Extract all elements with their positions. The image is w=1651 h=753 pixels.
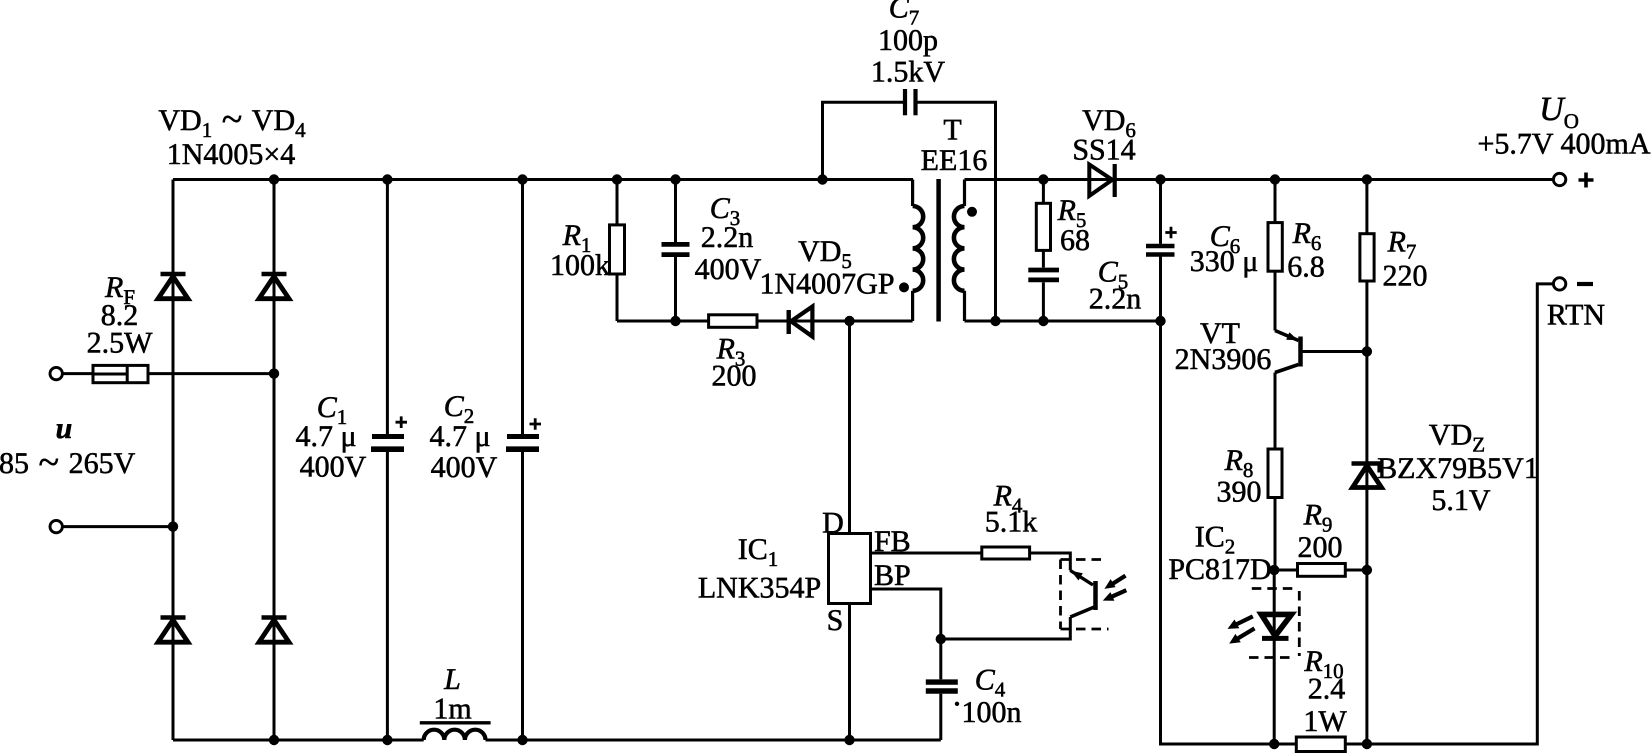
wire bottom rail LED node to R10 [1274, 743, 1296, 746]
node top rail / right bridge column [269, 174, 279, 184]
transformer T primary winding [913, 180, 924, 322]
optocoupler incoming light arrow 2 [1103, 590, 1127, 601]
svg-text:200: 200 [712, 360, 757, 393]
wire VT base lead [1303, 350, 1367, 353]
diode VD5 [789, 307, 813, 337]
transformer T core [936, 179, 941, 322]
wire R5 to C5 [1042, 250, 1045, 267]
fusible resistor RF [93, 365, 148, 382]
node top rail / C2 [517, 174, 527, 184]
output plus sign [1579, 173, 1594, 188]
svg-text:FB: FB [874, 525, 911, 558]
node bottom rail / right bridge column [269, 735, 279, 745]
capacitor C1 (electrolytic) [371, 416, 407, 449]
node output rail / R7 [1362, 174, 1372, 184]
svg-text:400V: 400V [695, 253, 762, 286]
optocoupler phototransistor dashed outline [1061, 560, 1109, 630]
wire R4 to opto collector corner [1030, 553, 1071, 571]
svg-text:VD1 ~ VD4: VD1 ~ VD4 [158, 99, 306, 143]
node BP / C4 / opto emitter [936, 634, 946, 644]
svg-text:400V: 400V [431, 451, 498, 484]
optocoupler phototransistor (IC2 right half) [1070, 571, 1095, 618]
optocoupler incoming light arrow 1 [1104, 576, 1125, 589]
wire IC1 BP pin down to node [871, 589, 941, 639]
wire C2 column upper [521, 180, 524, 435]
svg-text:L: L [443, 663, 461, 696]
wire AC live input to fuse [62, 372, 93, 375]
resistor R7 [1360, 234, 1374, 281]
wire bottom DC- rail right of inductor [486, 739, 941, 742]
wire R1 top lead [616, 180, 619, 225]
capacitor C5 [1028, 270, 1059, 280]
svg-text:2.2n: 2.2n [1089, 283, 1142, 316]
node bottom rail / LED cathode [1269, 739, 1279, 749]
IC1 LNK354P box [829, 534, 871, 604]
node bottom rail / C1 bottom [382, 735, 392, 745]
capacitor C3 [662, 244, 690, 254]
wire AC neutral input [62, 525, 173, 528]
svg-text:PC817D: PC817D [1168, 553, 1271, 586]
wire C1 column upper [386, 180, 389, 435]
svg-text:EE16: EE16 [921, 144, 988, 177]
wire right bridge column [273, 180, 276, 741]
transformer secondary phase dot [967, 207, 977, 217]
svg-text:68: 68 [1060, 224, 1090, 257]
resistor R8 [1268, 449, 1282, 498]
terminal AC live [50, 367, 62, 379]
resistor R1 [610, 225, 625, 274]
node clamp / C3 bottom [670, 316, 680, 326]
svg-text:200: 200 [1298, 531, 1343, 564]
capacitor C6 (electrolytic) [1146, 227, 1177, 255]
svg-text:2.4: 2.4 [1308, 673, 1346, 706]
resistor R10 [1296, 737, 1345, 752]
capacitor C2 (electrolytic) [506, 418, 541, 449]
node VT base / R7 [1362, 346, 1372, 356]
node output rail / R6 [1270, 174, 1280, 184]
wire R7 top lead [1365, 180, 1368, 234]
diode VD6 SS14 [1089, 164, 1114, 197]
wire C7 left vertical [823, 102, 904, 179]
wire R7 through base node and zener to bottom [1365, 281, 1368, 744]
wire BP node through C4 top [939, 639, 942, 679]
svg-text:2N3906: 2N3906 [1175, 343, 1272, 376]
node drain / VD5 / D pin [844, 316, 854, 326]
wire opto emitter to BP node [941, 617, 1071, 639]
svg-text:100k: 100k [550, 249, 610, 282]
wire transformer secondary bottom to return rail [965, 320, 1161, 323]
node AC neutral / bridge [168, 521, 178, 531]
resistor R5 [1036, 203, 1050, 250]
wire LED column through diode [1273, 570, 1276, 744]
svg-text:BZX79B5V1: BZX79B5V1 [1377, 452, 1539, 485]
diode VD4 (bridge bottom-right) [259, 618, 289, 643]
svg-text:2.2n: 2.2n [701, 221, 754, 254]
svg-text:6.8: 6.8 [1287, 250, 1325, 283]
svg-text:4.7 μ: 4.7 μ [295, 420, 356, 453]
transformer T secondary winding [954, 180, 965, 322]
wire R8 to feedback node [1274, 498, 1277, 571]
svg-text:D: D [822, 507, 844, 540]
node secondary return / C5 [1038, 316, 1048, 326]
wire secondary return down [1161, 321, 1275, 744]
wire top DC+ rail (primary side) [173, 178, 913, 181]
wire C4 bottom to rail corner [939, 694, 942, 740]
transistor VT 2N3906 [1275, 331, 1301, 373]
svg-text:T: T [943, 114, 961, 147]
wire clamp node to R3 [617, 320, 709, 323]
svg-text:2.5W: 2.5W [87, 327, 154, 360]
wire C5 bottom lead [1042, 282, 1045, 321]
node R9 / zener column [1362, 565, 1372, 575]
svg-text:SS14: SS14 [1072, 134, 1135, 167]
stray printing dot near C4 value [955, 702, 959, 706]
IC2 LED emitted light arrow 1 [1228, 616, 1253, 629]
wire bottom DC- rail left of inductor [173, 739, 424, 742]
svg-text:330 μ: 330 μ [1190, 245, 1259, 278]
wire C6 bottom lead [1159, 257, 1162, 322]
terminal RTN minus [1553, 278, 1565, 290]
wire R1 bottom lead [616, 274, 619, 321]
svg-text:LNK354P: LNK354P [698, 572, 821, 605]
wire R6 top lead [1274, 180, 1277, 223]
wire C3 bottom lead [674, 257, 677, 321]
diode VD2 (bridge top-right) [259, 274, 289, 299]
node secondary return / C7 [990, 316, 1000, 326]
wire left bridge column [172, 180, 175, 741]
wire drain node to IC1 D pin [848, 321, 851, 534]
resistor R9 [1298, 564, 1346, 577]
svg-text:400V: 400V [300, 451, 367, 484]
svg-text:u: u [56, 412, 73, 445]
wire C6 top lead [1159, 180, 1162, 244]
svg-text:1N4005×4: 1N4005×4 [167, 138, 296, 171]
svg-text:1.5kV: 1.5kV [871, 55, 946, 88]
node output rail / R5 [1038, 174, 1048, 184]
wire IC1 FB pin to R4 [871, 552, 982, 555]
wire C2 column lower [521, 452, 524, 740]
node top rail / C3 [670, 174, 680, 184]
svg-text:5.1V: 5.1V [1431, 484, 1491, 517]
svg-text:4.7 μ: 4.7 μ [429, 420, 490, 453]
svg-text:100p: 100p [878, 24, 938, 57]
wire fuse to bridge node [148, 372, 274, 375]
wire R6 to VT emitter [1274, 271, 1277, 330]
node top rail / C1 [382, 174, 392, 184]
wire IC1 S pin to bottom rail [848, 604, 851, 741]
resistor R4 [982, 547, 1030, 559]
svg-text:BP: BP [874, 559, 911, 592]
svg-text:5.1k: 5.1k [985, 506, 1038, 539]
wire R3 to VD5 anode through diode [757, 320, 913, 323]
node top rail / R1 [612, 174, 622, 184]
diode VD1 (bridge top-left) [158, 274, 188, 299]
wire VT collector to R8 [1274, 373, 1277, 450]
wire bottom rail to RTN riser [1367, 284, 1554, 744]
zener diode VDZ BZX79B5V1 [1352, 464, 1382, 488]
terminal AC neutral [50, 520, 62, 532]
IC2 LED (PC817 input side) [1261, 614, 1291, 638]
terminal output plus [1553, 173, 1565, 185]
node top rail / C7 [817, 174, 827, 184]
wire C3 top lead [674, 180, 677, 243]
capacitor C4 [926, 682, 958, 691]
wire R10 to zener node [1345, 743, 1367, 746]
resistor R3 [709, 315, 757, 328]
transformer primary phase dot [899, 282, 909, 292]
node bottom rail / S pin [844, 735, 854, 745]
diode VD3 (bridge bottom-left) [158, 618, 188, 643]
IC2 LED dashed outline [1249, 589, 1299, 658]
svg-text:85 ~ 265V: 85 ~ 265V [0, 442, 136, 484]
wire top output rail (secondary side) [965, 178, 1554, 181]
wire C7 right vertical down to secondary return [918, 102, 996, 321]
node AC live / bridge [269, 368, 279, 378]
node R8 / R9 / LED anode [1269, 565, 1279, 575]
wire node to R9 [1275, 569, 1298, 572]
svg-text:+5.7V 400mA: +5.7V 400mA [1477, 128, 1650, 161]
wire R9 to zener column [1345, 569, 1367, 572]
svg-text:100n: 100n [962, 696, 1022, 729]
svg-text:1m: 1m [433, 693, 471, 726]
svg-text:220: 220 [1383, 260, 1428, 293]
svg-text:S: S [827, 604, 844, 637]
inductor L [420, 723, 491, 740]
node secondary return / C6 bottom [1155, 316, 1165, 326]
resistor R6 [1268, 223, 1282, 272]
capacitor C7 [905, 89, 916, 115]
svg-text:1W: 1W [1303, 705, 1347, 738]
wire C1 column lower [386, 452, 389, 740]
wire R5 top lead [1042, 180, 1045, 204]
node output rail / C6 [1155, 174, 1165, 184]
svg-text:390: 390 [1217, 476, 1262, 509]
node bottom rail / zener anode [1362, 739, 1372, 749]
node bottom rail / C2 bottom [517, 735, 527, 745]
IC2 LED emitted light arrow 2 [1229, 628, 1254, 643]
svg-text:1N4007GP: 1N4007GP [759, 268, 894, 301]
RTN minus sign [1577, 282, 1593, 286]
svg-text:RTN: RTN [1547, 299, 1605, 332]
